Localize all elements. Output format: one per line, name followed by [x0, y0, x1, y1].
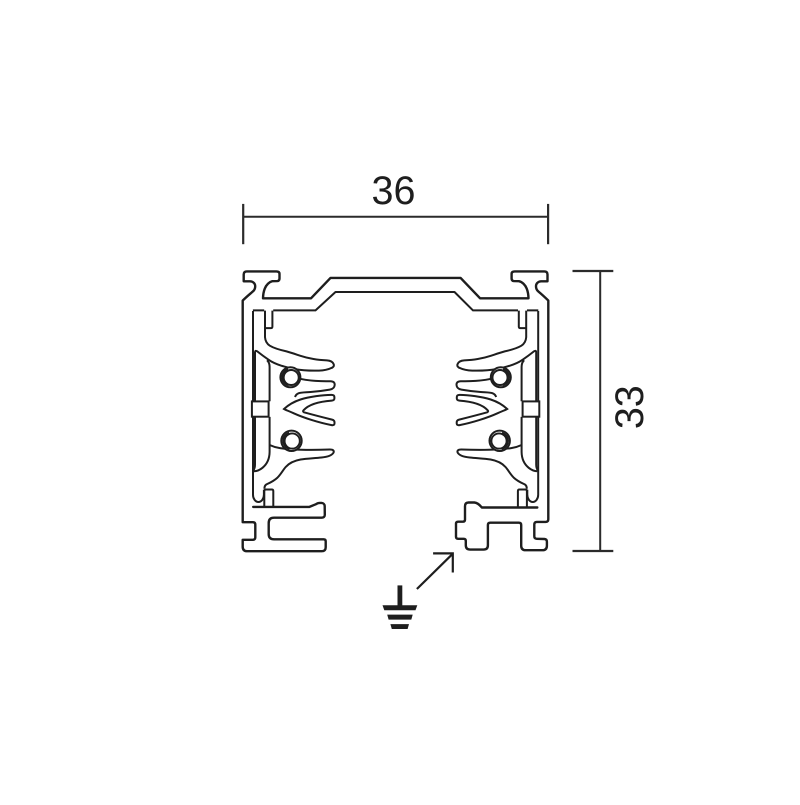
left inner assembly: [252, 311, 335, 508]
dimension 36 line: [243, 216, 548, 218]
ground arrow head bracket: [433, 553, 453, 572]
ground symbol bar 3: [390, 624, 409, 629]
dimension 33 top tick: [573, 270, 614, 272]
dimension 36 right tick: [547, 204, 549, 244]
ground symbol stem: [398, 585, 403, 606]
inner roof line: [253, 292, 538, 310]
ground arrow shaft: [417, 554, 452, 589]
dimension 33 bottom tick: [573, 550, 614, 552]
dimension 36 left tick: [242, 204, 244, 244]
ground symbol bar 2: [387, 615, 413, 620]
right inner assembly (mirrored): [456, 311, 539, 508]
svg-text:33: 33: [608, 385, 652, 429]
dimension 33 line: [599, 271, 601, 551]
ground symbol bar 1: [383, 605, 418, 610]
svg-text:36: 36: [372, 169, 416, 213]
track profile outer outline: [243, 271, 549, 551]
